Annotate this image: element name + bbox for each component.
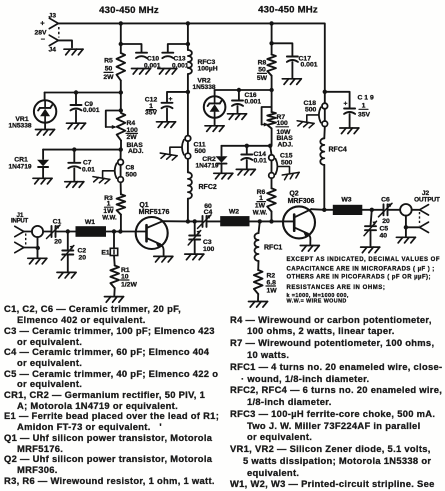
node RFC1 top (258, 219, 262, 223)
svg-text:1/2W: 1/2W (121, 282, 137, 289)
wire W3 to C6 (362, 209, 383, 211)
svg-text:1N4719: 1N4719 (195, 162, 218, 169)
wire VR1 node (45, 92, 121, 94)
node R5-VR1line (119, 90, 123, 94)
svg-text:10: 10 (121, 273, 129, 280)
label W2 (229, 209, 239, 216)
node R4 wiper top (119, 108, 123, 112)
node RFC2 bottom (186, 219, 190, 223)
svg-text:RESISTANCES ARE IN OHMS;: RESISTANCES ARE IN OHMS; (287, 285, 386, 291)
connector J3 (49, 13, 59, 29)
ground R2 (249, 302, 268, 308)
capacitor C8 feedthrough (92, 159, 123, 184)
wire J2 shell (406, 216, 420, 237)
wire W2 to Q2 base (250, 220, 295, 222)
node bus-R5 (119, 21, 123, 25)
svg-text:1: 1 (107, 201, 111, 208)
wire C1 to W1 (56, 231, 76, 233)
node C12 tee (186, 90, 190, 94)
wire C6 to J2 (388, 209, 401, 211)
node R4-C8 (119, 147, 123, 151)
node bus-RFC3 (186, 21, 190, 25)
svg-text:50: 50 (105, 66, 113, 73)
rectifier CR2 (216, 146, 228, 173)
label C6 (381, 197, 390, 226)
wire R3 to base node (120, 215, 122, 232)
svg-text:2W: 2W (127, 134, 138, 141)
capacitor C6 trimmer (379, 203, 393, 217)
label C18 (304, 100, 317, 113)
svg-text:0.001: 0.001 (301, 61, 318, 68)
node R3 bottom (118, 229, 122, 233)
node C5 top (370, 208, 374, 212)
label R2 (266, 273, 277, 295)
ferrite bead E1 (110, 232, 117, 256)
label Q1 (139, 202, 170, 216)
label C14 (254, 151, 267, 164)
label R7 (276, 114, 293, 149)
resistor R1 (110, 266, 119, 289)
ground R1 (105, 297, 124, 303)
ground C17 (282, 79, 301, 85)
svg-text:500: 500 (126, 172, 138, 179)
svg-text:Q1: Q1 (139, 202, 148, 209)
ground C2 (57, 272, 76, 278)
svg-text:6.8: 6.8 (267, 279, 277, 286)
ground CR1 (33, 178, 52, 184)
potentiometer R4 (117, 113, 126, 149)
svg-text:Q2: Q2 (289, 191, 298, 198)
wire C4 to W2 (207, 220, 221, 222)
label E1 (101, 250, 110, 257)
wire node to C15 (270, 146, 271, 155)
capacitor C3 trimmer (188, 221, 201, 253)
wire RFC4 to collector node (323, 165, 325, 210)
svg-text:100: 100 (203, 246, 215, 253)
svg-text:R5: R5 (104, 58, 113, 65)
wire bus to R5 (120, 23, 122, 53)
connector J4 (49, 35, 59, 53)
wire CR1 node line (43, 149, 121, 151)
label R6 (253, 189, 268, 216)
wire J2 to arrow (412, 209, 420, 211)
label C13 (172, 56, 189, 70)
label C4 (204, 203, 213, 216)
svg-text:RFC1: RFC1 (264, 245, 282, 252)
ground J1 (28, 258, 47, 264)
svg-text:C 1 9: C 1 9 (358, 95, 374, 102)
ground C9 (67, 123, 86, 129)
svg-text:C5: C5 (380, 226, 389, 233)
inductor RFC3 (188, 50, 192, 74)
label C2 (78, 248, 87, 262)
svg-text:ADJ.: ADJ. (128, 148, 144, 155)
svg-text:J3: J3 (49, 13, 57, 20)
wire J1 dashed (25, 234, 27, 246)
ground J4 (64, 49, 83, 55)
capacitor C7 (68, 150, 80, 181)
resistor R8 (267, 55, 276, 76)
svg-text:EXCEPT AS INDICATED, DECIMAL V: EXCEPT AS INDICATED, DECIMAL VALUES OF (287, 257, 441, 263)
wire W1 to Q1 base (106, 231, 146, 233)
label C19 (358, 95, 374, 119)
label CR2 (195, 156, 218, 169)
label RFC2 (199, 184, 217, 191)
capacitor C15 feedthrough (269, 155, 300, 180)
potentiometer R7 (267, 112, 276, 145)
svg-text:+: + (344, 101, 348, 108)
capacitor C14 (241, 146, 252, 169)
wire node to C4 (188, 220, 203, 222)
label C17 (299, 56, 318, 69)
wire C18 to RFC4 (323, 127, 326, 139)
inductor RFC4 (320, 138, 324, 165)
wire C19node to C18 (324, 92, 326, 103)
svg-text:C1: C1 (53, 219, 62, 226)
svg-text:500: 500 (195, 148, 207, 155)
svg-text:OTHERS ARE IN PICOFARADS ( pF: OTHERS ARE IN PICOFARADS ( pF OR µµF); (287, 275, 431, 281)
jack J2 (400, 204, 412, 216)
node R8-R7 (269, 88, 273, 92)
ground C10 (132, 69, 151, 75)
svg-text:J4: J4 (49, 46, 57, 53)
svg-text:RFC2: RFC2 (199, 184, 217, 191)
capacitor C11 feedthrough (159, 136, 190, 161)
node R8-C17 tee (269, 41, 273, 45)
wire tee to C10 (121, 44, 142, 53)
capacitor C19 (325, 92, 355, 128)
wire bus to RFC3 (187, 23, 189, 50)
label C8 (126, 164, 138, 178)
svg-text:MRF5176: MRF5176 (139, 209, 170, 216)
svg-text:1N4719: 1N4719 (8, 163, 31, 170)
svg-text:430-450 MHz: 430-450 MHz (99, 5, 159, 16)
wire RFC1 to R2 (257, 261, 259, 270)
svg-text:C13: C13 (174, 56, 186, 63)
wire base node to RFC1 (259, 221, 260, 233)
svg-text:500: 500 (305, 106, 317, 113)
wire J2 dashed (419, 212, 421, 226)
svg-text:2W: 2W (103, 74, 114, 81)
wire RFC3 to C11 (187, 74, 189, 136)
node RFC3-C13 tee (186, 42, 190, 46)
wire R1 to ground (113, 288, 115, 296)
wire R7 wiper (262, 107, 272, 127)
ground CR2 (214, 173, 233, 179)
svg-text:1: 1 (362, 103, 366, 110)
svg-text:20: 20 (79, 255, 87, 262)
node R7-C15 (268, 144, 272, 148)
zener diode VR1 (34, 93, 56, 129)
resistor R2 (254, 270, 263, 294)
wire R7 top (271, 90, 273, 112)
capacitor C12 (162, 92, 188, 121)
node J2 ground (404, 225, 408, 229)
label J1 INPUT (11, 212, 29, 225)
wire Q1 collector (163, 220, 188, 222)
wire tee to C17 (272, 43, 293, 56)
label C12 (145, 97, 158, 117)
node Q2 collector (322, 208, 326, 212)
svg-text:50: 50 (258, 67, 266, 74)
label C7 (82, 160, 95, 174)
svg-text:C6: C6 (381, 197, 390, 204)
label C11 (194, 142, 207, 156)
ground VR2 (205, 126, 224, 132)
node J1 ground (36, 246, 40, 250)
ground VR1 (36, 130, 55, 136)
capacitor C16 (232, 90, 243, 113)
wire tee to C13 (168, 44, 188, 53)
label RFC1 (264, 245, 282, 252)
node C16 (237, 88, 241, 92)
svg-text:ADJ.: ADJ. (278, 142, 294, 149)
label C9 (83, 101, 100, 114)
svg-text:5W: 5W (257, 75, 268, 82)
ground J2 (396, 237, 415, 243)
label CR1 (8, 157, 31, 171)
svg-text:100µH: 100µH (198, 66, 218, 73)
svg-text:W1: W1 (85, 219, 95, 226)
node C7 (72, 147, 76, 151)
svg-text:35V: 35V (358, 112, 371, 119)
svg-text:35V: 35V (145, 110, 158, 117)
inductor RFC1 (255, 233, 259, 261)
wire CR2 node line (222, 145, 271, 147)
transistor Q2 (283, 206, 315, 244)
wire C15 to R6 (271, 178, 273, 188)
node C14 (245, 144, 249, 148)
label C16 (245, 92, 262, 105)
connector J2 pin (420, 205, 429, 215)
label J2 OUTPUT (414, 190, 440, 204)
ground C5 (361, 247, 380, 253)
transistor Q1 (136, 217, 168, 256)
svg-text:W.W.: W.W. (253, 209, 268, 216)
svg-text:0.001: 0.001 (245, 98, 262, 105)
capacitor C2 trimmer (61, 232, 74, 272)
wire C11 to RFC2 (187, 159, 189, 173)
label RFC3 (198, 59, 218, 73)
note except-as-indicated (287, 257, 441, 304)
svg-text:500: 500 (281, 159, 293, 166)
capacitor C10 (136, 53, 147, 58)
wire R6 to base node (271, 212, 273, 222)
capacitor C13 (162, 53, 173, 58)
svg-text:1W: 1W (267, 288, 278, 295)
svg-text:100: 100 (277, 120, 289, 127)
text 430-450 MHz right (258, 5, 318, 16)
svg-text:C10: C10 (147, 56, 159, 63)
resistor R3 (117, 194, 126, 214)
label C15 (280, 153, 293, 167)
wire E1 to R1 (113, 256, 116, 266)
svg-text:+: + (169, 96, 173, 103)
svg-text:0.01: 0.01 (82, 167, 95, 174)
svg-text:R8: R8 (258, 59, 267, 66)
capacitor C5 trimmer (364, 210, 377, 247)
node E1 branch (112, 229, 116, 233)
wire C8 to R3 (120, 182, 122, 194)
svg-text:RFC4: RFC4 (329, 147, 347, 154)
node C9 (74, 90, 78, 94)
capacitor C9 (71, 93, 82, 123)
svg-text:20: 20 (54, 239, 62, 246)
wire top bus (58, 23, 325, 91)
stripline W3 (333, 205, 363, 215)
wire Q2 collector (311, 208, 324, 211)
wire RFC2 to collector (187, 199, 189, 222)
svg-text:−: − (41, 34, 46, 43)
ground C3 (185, 254, 204, 260)
wire C17 to ground (291, 62, 293, 78)
text 430-450 MHz left (99, 5, 159, 16)
wire R5 to node (120, 81, 122, 111)
svg-text:0.01: 0.01 (254, 157, 267, 164)
label R8 (257, 59, 268, 82)
label C3 (203, 239, 215, 253)
node C3 top (193, 219, 197, 223)
svg-text:W3: W3 (341, 197, 351, 204)
label R1 (121, 267, 138, 289)
connector J2 shell (420, 222, 429, 232)
ground C14 (236, 169, 255, 175)
svg-text:C2: C2 (78, 248, 87, 255)
node R5-C10 tee (119, 42, 123, 46)
svg-text:C4: C4 (204, 209, 213, 216)
capacitor C17 (287, 57, 298, 62)
svg-text:1: 1 (259, 195, 263, 202)
svg-text:W.W.= WIRE WOUND: W.W.= WIRE WOUND (287, 298, 347, 304)
wire node to W3 (324, 209, 333, 211)
svg-text:C8: C8 (126, 164, 135, 171)
wire R2 to ground (257, 294, 259, 301)
rectifier CR1 (37, 150, 49, 178)
svg-text:40: 40 (380, 233, 388, 240)
wire R4 wiper (106, 111, 121, 130)
label R3 (102, 195, 117, 222)
svg-text:INPUT: INPUT (11, 218, 29, 224)
svg-text:W.W.: W.W. (102, 215, 117, 222)
capacitor C1 trimmer (47, 225, 61, 239)
label W1 (85, 219, 95, 226)
capacitor C18 feedthrough (296, 103, 327, 128)
resistor R6 (267, 188, 276, 211)
label VR2 (192, 78, 215, 91)
ground Q2 emitter (300, 246, 319, 252)
connector J1 shell (15, 242, 24, 252)
connector J1 (15, 226, 24, 236)
zener diode VR2 (204, 90, 226, 125)
label R5 (103, 58, 114, 82)
label R4 (126, 120, 144, 155)
capacitor C4 trimmer (198, 215, 212, 229)
stripline W2 (220, 216, 249, 226)
label C10 (144, 56, 161, 70)
ground C7 (65, 182, 84, 188)
svg-text:430-450 MHz: 430-450 MHz (258, 5, 318, 16)
stripline W1 (76, 226, 107, 237)
svg-text:100: 100 (127, 127, 139, 134)
svg-text:OUTPUT: OUTPUT (414, 197, 440, 204)
wire VR2 node line (215, 89, 272, 91)
label C1 (53, 219, 62, 246)
label Q2 (288, 191, 315, 206)
svg-text:E1: E1 (101, 250, 110, 257)
ground C16 (228, 114, 247, 120)
svg-text:CAPACITANCE ARE IN MICROFARADS: CAPACITANCE ARE IN MICROFARADS ( µF ) ; (287, 266, 435, 272)
node R6 bottom (269, 219, 273, 223)
node C19 (323, 90, 327, 94)
ground C12 (157, 122, 176, 128)
wire bus to R8 (271, 23, 273, 54)
label +28V- (34, 19, 47, 44)
wire J3-J4 dashed (58, 27, 60, 38)
wire J4 to ground (58, 40, 72, 47)
wire R4node to C8 (120, 150, 122, 160)
ground C13 (158, 69, 177, 75)
svg-text:W2: W2 (229, 209, 239, 216)
label C5 (380, 226, 389, 240)
node bus-R8 (269, 21, 273, 25)
node C1-C2 (66, 229, 70, 233)
wire R8 to node (271, 76, 273, 90)
inductor RFC2 (188, 172, 192, 198)
jack J1 (32, 226, 43, 237)
svg-text:1N5338: 1N5338 (8, 122, 31, 129)
svg-text:1N5338: 1N5338 (192, 84, 215, 91)
ground C19 (340, 128, 359, 134)
svg-text:20: 20 (382, 218, 390, 225)
label RFC4 (329, 147, 347, 154)
label W3 (341, 197, 351, 204)
wire J1 to C1 (24, 231, 52, 233)
svg-text:MRF306: MRF306 (288, 198, 315, 205)
svg-text:+: + (40, 19, 45, 28)
ground Q1 emitter (154, 256, 173, 262)
resistor R5 (117, 53, 126, 81)
wire J1 shell to ground (24, 237, 38, 257)
label VR1 (8, 116, 31, 129)
svg-text:C7: C7 (83, 160, 92, 167)
svg-text:0.001: 0.001 (83, 107, 100, 114)
